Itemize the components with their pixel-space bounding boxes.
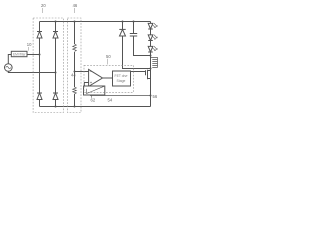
node top rail / divider [74,21,76,23]
node top rail / freewheel diode [122,21,124,23]
svg-text:50: 50 [106,54,111,59]
node LED bottom / capacitor [150,55,152,57]
svg-text:Stage: Stage [117,79,126,83]
node FET source / sense [150,95,152,97]
ramp generator box [84,86,105,95]
svg-text:20: 20 [41,3,46,8]
labels [27,3,158,103]
diode D3 bridge bottom-left [37,93,42,100]
divider column wire [74,22,76,107]
leader 50 [106,59,109,65]
sense wire to FET source node [90,95,151,97]
node top rail / capacitor [133,21,135,23]
node bottom rail / bridge right [55,106,57,108]
svg-text:54: 54 [108,98,113,103]
inductor L1 [151,58,158,68]
freewheel diode D5 column [123,22,151,69]
capacitor C1 plates [130,34,137,37]
freewheel diode D5 [119,29,125,36]
leader for label 62 [91,95,93,98]
svg-text:10: 10 [27,42,32,47]
svg-text:EMI filter: EMI filter [13,53,27,57]
wire AC bottom to bridge right mid node [8,71,55,72]
FET driver box U2 [113,71,131,86]
node top rail / bridge right [55,21,57,23]
bridge left column [39,22,41,107]
dashed box rectifier 20 [33,18,63,113]
bottom rail [40,106,151,108]
junction dots [39,21,152,108]
dashed box control 50 [84,65,134,92]
leader 20 [41,8,43,13]
MOSFET Q1 [146,70,151,80]
wire divider tap to op-amp inverting input [75,71,89,73]
EMI filter box [11,51,27,56]
AC source V1 [5,64,13,72]
LED L1 [148,23,157,29]
op-amp U1 [89,69,103,86]
LED string column [150,22,152,107]
node coil bottom / freewheel [150,68,152,70]
svg-text:56: 56 [153,94,158,99]
svg-text:44: 44 [71,72,76,77]
wire op-amp non-inverting input from ramp generator [84,83,88,87]
wire EMI output to bridge left mid node [27,54,40,56]
node bridge right mid [55,72,57,74]
resistor R1 [73,44,77,51]
svg-text:46: 46 [73,3,78,8]
resistor R2 [73,87,77,94]
node bridge left mid [39,54,41,56]
dashed boxes [33,18,133,113]
LED L2 [148,35,157,41]
node divider tap [74,71,76,73]
diode D1 bridge top-left [37,32,42,39]
wire AC top to EMI filter [8,55,11,64]
wire op-amp output to driver box [103,77,113,79]
dashed box divider 46 [67,18,81,113]
top rail [40,21,151,23]
node bottom rail / divider [74,106,76,108]
tiny box texts [13,53,128,83]
svg-text:FET drvr: FET drvr [115,74,129,78]
leader 10 [28,47,30,51]
bridge right column [55,22,57,107]
diode D2 bridge top-right [53,32,58,39]
svg-text:62: 62 [91,98,96,103]
LED L3 [148,46,157,52]
diode D4 bridge bottom-right [53,93,58,100]
leader 46 [74,8,76,13]
wire driver output to gate [131,71,146,73]
capacitor C1 column [134,22,151,56]
